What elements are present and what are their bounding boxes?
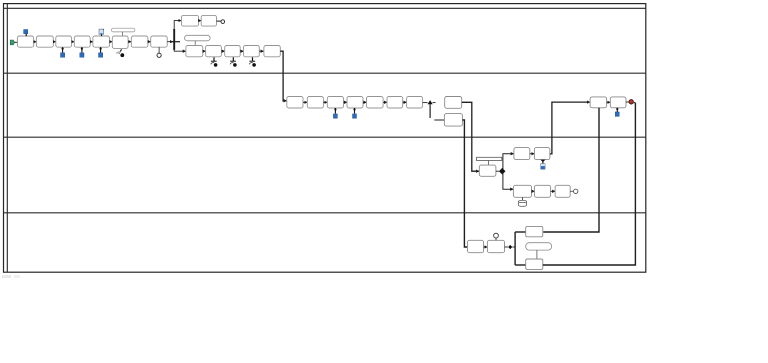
wire T1 to T2: [34, 41, 37, 43]
wire L1 to L2: [303, 101, 307, 103]
data icon below L4 (stem): [354, 108, 356, 114]
task B1: [186, 46, 203, 57]
junction up-arrowhead: [428, 100, 433, 104]
data icon below L3 (stem): [334, 108, 336, 114]
pill stem down: [536, 250, 538, 259]
wire T8 to gateway bar: [167, 41, 172, 43]
task V2 (lane4 lower): [526, 259, 543, 269]
data icon above T1 (blue square): [24, 30, 28, 34]
data icon above T1 (stem): [25, 33, 27, 36]
service icon below B2: [211, 57, 218, 66]
task T8: [151, 36, 168, 47]
task U2: [201, 15, 216, 26]
wire Q1 to Q2: [532, 190, 535, 192]
task Q1: [513, 185, 531, 197]
task N1: [514, 148, 530, 160]
wire B3 to B4: [240, 50, 243, 52]
task L7: [407, 97, 423, 109]
data icon below T3 (stem): [62, 47, 64, 52]
task M1 (lane3): [479, 165, 496, 176]
wire P2 to junction diamond: [505, 246, 508, 248]
wire L7 to junction: [423, 102, 428, 104]
task T1: [17, 36, 33, 47]
wire N1 to N2: [530, 153, 534, 155]
task T7: [131, 36, 148, 47]
annotation pill V-mid: [526, 243, 552, 250]
wire G1 up to U1: [174, 21, 181, 29]
wire M1 to gateway G2: [496, 170, 499, 172]
wire RA down to lane4 V1: [543, 108, 599, 232]
task L3: [327, 97, 343, 109]
wire U2 to end: [217, 20, 221, 22]
wire bracket to V2: [515, 264, 526, 266]
lane divider 2: [4, 136, 646, 138]
task L5: [367, 97, 384, 109]
wire V2 right to riser: [543, 103, 636, 265]
gateway G2 (X diamond): [499, 168, 506, 175]
task U1 (upper branch): [182, 15, 199, 26]
wire B2 to B3: [221, 50, 224, 52]
junction stem down: [429, 104, 431, 118]
task V1 (lane4 upper): [526, 226, 543, 236]
task L2: [307, 97, 323, 109]
data icon below N2 (stem): [540, 160, 545, 163]
end event below T8: [157, 53, 161, 57]
bracket vertical: [514, 232, 516, 265]
annotation stem to B1: [194, 41, 196, 46]
wire L9 right and down to lane4 P1: [462, 120, 467, 247]
wire T4 to T5: [90, 41, 93, 43]
timer above P2 (stem): [495, 238, 497, 240]
pool header left line: [6, 4, 8, 273]
task B5: [264, 46, 280, 57]
data icon below T3 (blue square): [61, 53, 65, 58]
wire into L9: [434, 119, 444, 121]
data icon below T5 (blue square): [99, 53, 103, 58]
data store below Q1: [519, 197, 527, 206]
wire RB to final end: [626, 101, 629, 103]
wire Q3 to end: [570, 190, 573, 192]
data icon below T5 (stem): [100, 47, 102, 52]
wire G2 down to Q1: [503, 174, 513, 190]
wire T5 to T6: [110, 41, 113, 43]
parallel gateway bar G1: [173, 29, 175, 50]
junction diamond lane4: [508, 245, 512, 249]
annotation pill above T6: [112, 28, 135, 32]
wire junction to L8: [433, 102, 436, 104]
start event (green arrow): [10, 40, 14, 45]
data icon below RB (blue square): [615, 112, 619, 117]
data icon below RB (stem): [616, 108, 618, 112]
data icon below T4 (blue square): [80, 53, 84, 58]
wire G2 up to N1: [503, 154, 514, 169]
service icon below B3: [230, 57, 237, 66]
wire L5 to L6: [383, 101, 387, 103]
wire B1 to B2: [203, 50, 206, 52]
task L1 (lane2): [287, 97, 303, 109]
timer above P2 (circle): [494, 233, 499, 238]
marker icon below T6: [116, 49, 124, 57]
wire T3 to T4: [72, 41, 75, 43]
annotation stem to T6: [121, 32, 123, 36]
task B4: [244, 46, 260, 57]
data icon below N2 (blue square): [541, 164, 546, 170]
wire B4 to B5: [259, 50, 263, 52]
task T4: [74, 36, 90, 47]
wire P1 to P2: [484, 246, 488, 248]
data icon below L4 (blue square): [353, 114, 357, 118]
task Q2: [535, 185, 551, 197]
task N2: [534, 148, 550, 160]
wire lane4 V2 up to final end: [634, 102, 636, 104]
task T3: [56, 36, 72, 47]
task B3: [225, 46, 241, 57]
lane divider 1: [4, 72, 646, 74]
wire U1 to U2: [199, 20, 201, 22]
task T6: [112, 36, 128, 48]
task P2: [487, 240, 504, 252]
task B2: [206, 46, 222, 57]
wire G1 down to B1: [174, 50, 185, 51]
wire T7 to T8: [148, 41, 151, 43]
wire N2 up to lane2 RA: [550, 102, 590, 154]
task T2: [36, 36, 53, 47]
task RB: [610, 97, 626, 108]
wire L8 right and down to lane3 M1: [462, 102, 479, 171]
pool outer border: [4, 4, 646, 273]
faint caption bottom-left: [2, 275, 11, 278]
bar stem to M1: [487, 161, 489, 166]
end event lane3: [574, 189, 578, 193]
wire RA to RB: [607, 101, 611, 103]
wire T2 to T3: [53, 41, 55, 43]
wire Q2 to Q3: [551, 190, 555, 192]
task RA (lane2 right): [590, 97, 607, 108]
pool header top line: [4, 7, 646, 9]
annotation pill above B1: [185, 35, 211, 41]
wire L6 to L7: [403, 101, 407, 103]
data icon below L3 (blue square): [333, 114, 337, 118]
task L8: [445, 97, 462, 109]
task Q3: [555, 185, 570, 197]
wire bracket to V1: [515, 231, 526, 233]
wire T6 to T7: [128, 41, 131, 43]
final end event (red): [629, 100, 633, 104]
end stem below T8: [158, 47, 160, 53]
collapsed pool bar (lane3): [477, 157, 502, 160]
wire L3 to L4: [344, 101, 347, 103]
wire L4 to L5: [363, 101, 366, 103]
task L6: [387, 97, 403, 109]
task P1 (lane4): [468, 240, 484, 252]
lane divider 3: [4, 212, 646, 214]
document icon above T5: [99, 29, 104, 36]
data icon below T4 (stem): [81, 47, 83, 52]
service icon below B4: [249, 57, 256, 66]
end event upper branch: [221, 20, 225, 24]
task L9: [444, 114, 462, 127]
task T5: [93, 36, 110, 47]
wire B5 down to lane2 L1: [280, 51, 286, 101]
task L4: [347, 97, 363, 109]
wire L2 to L3: [323, 101, 327, 103]
wire start to T1: [15, 41, 18, 43]
wire diamond to bracket: [512, 246, 515, 248]
